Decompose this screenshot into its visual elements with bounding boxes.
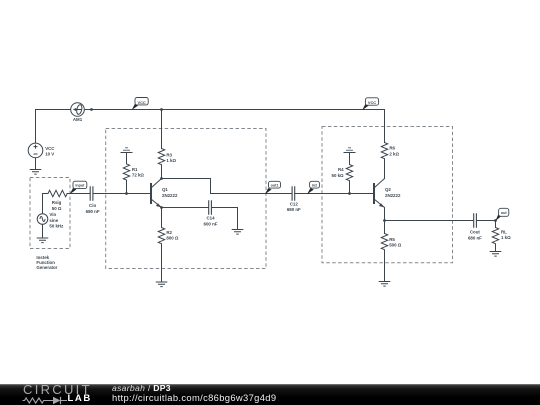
dashed box stage 1 enclosure xyxy=(106,129,266,269)
wire Rsig to Cin (node input) xyxy=(67,193,90,195)
svg-text:1 kΩ: 1 kΩ xyxy=(166,158,176,163)
resistor RL 1 kOhm xyxy=(492,228,498,244)
wire R4 top bar to resistor xyxy=(349,153,351,165)
voltage source V1 VCC 10 V xyxy=(28,143,43,158)
capacitor Cin 680 nF xyxy=(90,186,93,201)
wire stage2 VCC drop xyxy=(384,110,386,143)
svg-text:sine: sine xyxy=(49,218,58,223)
svg-text:Cout: Cout xyxy=(470,230,481,235)
svg-text:Q2: Q2 xyxy=(385,187,391,192)
capacitor C12 680 nF xyxy=(292,186,295,201)
junction rail to R3 xyxy=(160,108,163,111)
wire out node to RL xyxy=(495,221,497,228)
junction Q1 emitter xyxy=(160,206,163,209)
svg-text:Q1: Q1 xyxy=(162,187,168,192)
wire Q2 emitter junction to R5 xyxy=(384,221,386,234)
wire Cin to Q1 base xyxy=(93,193,150,195)
resistor Rsig 50 Ohm (horizontal) xyxy=(48,190,67,196)
wire R2 to ground xyxy=(161,244,163,282)
wire top VCC rail xyxy=(36,109,385,111)
svg-text:R4: R4 xyxy=(338,167,344,172)
ground below C14 xyxy=(232,230,244,235)
junction Q2 emitter node xyxy=(383,219,386,222)
wire Q2 emitter to junction xyxy=(384,208,386,221)
wire R1 top bar to resistor xyxy=(126,153,128,164)
wire Q1 collector to out1 row xyxy=(162,179,292,194)
svg-text:2 kΩ: 2 kΩ xyxy=(389,151,399,156)
ground below R5 xyxy=(379,282,391,287)
wire R1 to base node xyxy=(126,180,128,193)
svg-text:VCC: VCC xyxy=(45,146,55,151)
resistor R2 800 Ohm xyxy=(158,228,164,244)
svg-text:R1: R1 xyxy=(132,167,138,172)
resistor R1 72 kOhm xyxy=(123,164,129,180)
svg-text:R6: R6 xyxy=(389,146,395,151)
svg-text:AM1: AM1 xyxy=(73,117,83,122)
wire Q1 emitter to R2 xyxy=(161,208,163,228)
wire R4 to Q2 base node xyxy=(349,181,351,194)
node flag VCC (stage 2) xyxy=(362,98,379,110)
junction out node xyxy=(494,219,497,222)
capacitor C14 600 nF xyxy=(209,200,212,215)
node flag in2 xyxy=(307,181,319,194)
junction R4 base node xyxy=(348,192,351,195)
wire R3 to Q1 collector xyxy=(161,165,163,179)
resistor R3 1 kOhm xyxy=(158,149,164,165)
svg-text:680 nF: 680 nF xyxy=(287,207,301,212)
wire Cout to out node xyxy=(477,220,496,222)
wire VCC source to rail xyxy=(35,110,37,144)
dashed box Instek Function Generator enclosure xyxy=(30,178,70,249)
capacitor Cout 680 nF xyxy=(474,213,477,228)
svg-text:50 Ω: 50 Ω xyxy=(52,206,62,211)
junction R1 base node xyxy=(125,192,128,195)
svg-text:Vin: Vin xyxy=(49,212,56,217)
svg-text:RL: RL xyxy=(501,229,507,234)
svg-text:Rsig: Rsig xyxy=(52,200,62,205)
ammeter AM1 xyxy=(71,103,85,117)
resistor R4 50 kOhm xyxy=(346,165,352,181)
wire Q2 emitter to Cout xyxy=(385,220,474,222)
wire C12 to Q2 base (node in2) xyxy=(295,193,373,195)
dashed box stage 2 enclosure xyxy=(322,127,453,263)
transistor Q2 2N2222 xyxy=(374,179,385,208)
ground below RL xyxy=(490,252,502,257)
svg-text:2N2222: 2N2222 xyxy=(385,193,401,198)
svg-text:1 kΩ: 1 kΩ xyxy=(501,235,511,240)
logo resistor-diode squiggle xyxy=(22,384,100,405)
svg-text:input: input xyxy=(75,184,85,188)
svg-text:72 kΩ: 72 kΩ xyxy=(132,173,145,178)
svg-text:VCC: VCC xyxy=(368,100,376,105)
transistor Q1 2N2222 xyxy=(151,179,162,208)
wire VCC source to ground xyxy=(35,158,37,170)
resistor R6 2 kOhm xyxy=(381,143,387,159)
wire Vin to Rsig xyxy=(43,194,49,214)
svg-text:VCC: VCC xyxy=(137,100,145,105)
ground below VCC source xyxy=(30,170,42,175)
wire C14 to ground xyxy=(212,208,238,230)
node flag VCC (stage 1) xyxy=(132,98,149,111)
svg-text:800 Ω: 800 Ω xyxy=(166,236,179,241)
wire RL to ground xyxy=(495,244,497,252)
wire Q1 emitter to C14 xyxy=(162,207,209,209)
wire R5 to ground xyxy=(384,250,386,282)
svg-text:in2: in2 xyxy=(312,183,317,187)
supply bar above R1 xyxy=(121,148,133,153)
ground below Vin xyxy=(37,238,49,243)
source Vin sine 50 kHz xyxy=(37,214,48,225)
wire Vin to ground xyxy=(42,224,44,238)
svg-text:C12: C12 xyxy=(290,201,299,206)
node flag input xyxy=(70,181,87,194)
node flag out1 xyxy=(265,181,281,194)
svg-text:out: out xyxy=(501,211,508,215)
ground below R2 xyxy=(156,282,168,287)
svg-text:R3: R3 xyxy=(166,152,172,157)
resistor R5 500 Ohm xyxy=(381,234,387,250)
svg-text:500 Ω: 500 Ω xyxy=(389,243,402,248)
wire R6 to Q2 collector xyxy=(384,159,386,179)
svg-text:50 kΩ: 50 kΩ xyxy=(332,173,345,178)
svg-text:out1: out1 xyxy=(271,183,279,187)
node flag out xyxy=(495,208,508,221)
svg-text:600 nF: 600 nF xyxy=(204,221,218,226)
svg-text:Cin: Cin xyxy=(89,203,96,208)
svg-text:50 kHz: 50 kHz xyxy=(49,224,64,229)
svg-text:R2: R2 xyxy=(166,230,172,235)
svg-text:C14: C14 xyxy=(206,216,215,221)
svg-text:680 nF: 680 nF xyxy=(468,235,482,240)
wire rail to R3 xyxy=(161,110,163,149)
svg-text:10 V: 10 V xyxy=(45,151,54,156)
junction Q1 collector xyxy=(160,177,163,180)
supply bar above R4 xyxy=(344,148,356,153)
svg-text:680 nF: 680 nF xyxy=(86,209,100,214)
svg-text:R5: R5 xyxy=(389,237,395,242)
svg-text:2N2222: 2N2222 xyxy=(162,193,178,198)
junction right of AM1 xyxy=(90,108,93,111)
svg-text:Generator: Generator xyxy=(36,265,57,270)
